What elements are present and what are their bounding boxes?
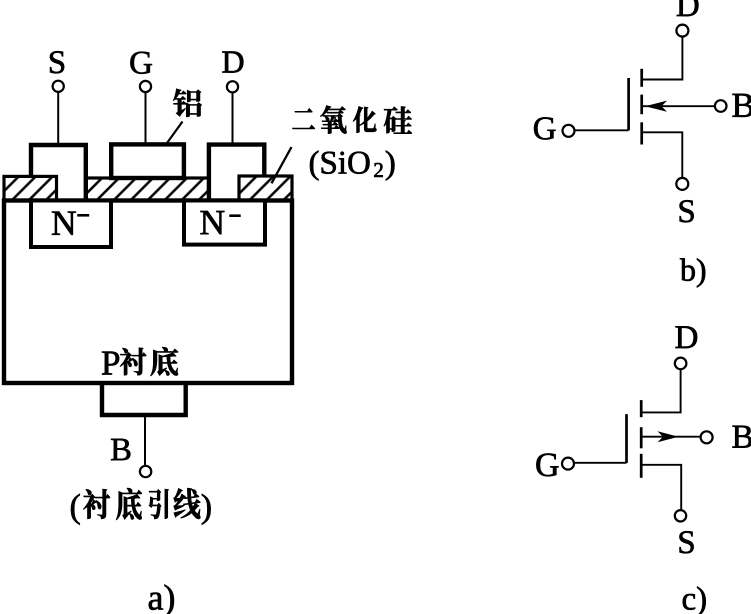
symbol b: channel dash drain xyxy=(640,69,643,87)
symbol b: channel dash source xyxy=(640,122,643,144)
label N- (source region) xyxy=(52,212,89,235)
label 二氧化硅 xyxy=(293,106,412,134)
symbol b: terminal S circle xyxy=(676,178,688,190)
symbol c: terminal B label xyxy=(733,426,751,448)
symbol c: channel dash body xyxy=(640,427,643,448)
symbol b: channel dash body xyxy=(640,95,643,115)
terminal S circle xyxy=(53,81,64,92)
symbol b: wire drain lead xyxy=(643,37,682,80)
label P衬底 xyxy=(102,347,178,376)
symbol c: wire source lead xyxy=(642,465,681,510)
terminal D label xyxy=(222,52,243,73)
terminal S label xyxy=(50,51,64,73)
label (SiO2) xyxy=(310,151,394,181)
symbol c: wire drain lead xyxy=(642,369,680,412)
wire D lead xyxy=(232,93,234,144)
terminal D circle xyxy=(227,81,238,92)
label b) xyxy=(680,258,705,287)
symbol c: wire gate lead xyxy=(574,462,627,464)
symbol b: terminal B circle xyxy=(715,100,727,112)
symbol c: channel dash drain xyxy=(640,400,643,417)
terminal G circle xyxy=(140,81,151,92)
oxide layer right (hatched SiO2) xyxy=(239,176,292,201)
oxide layer left (hatched SiO2) xyxy=(4,176,57,200)
P substrate body xyxy=(4,201,292,384)
symbol c: terminal D label xyxy=(676,326,698,348)
terminal G label xyxy=(130,52,152,74)
symbol b: terminal S label xyxy=(680,200,694,222)
gate metal electrode xyxy=(111,144,184,178)
symbol b: wire source lead xyxy=(643,132,682,178)
symbol c: terminal G label xyxy=(536,454,558,477)
wire B lead xyxy=(144,415,146,465)
symbol c: gate bar xyxy=(625,414,628,463)
symbol b: wire bulk lead xyxy=(643,105,715,107)
symbol c: channel dash source xyxy=(640,454,643,478)
symbol c: terminal D circle xyxy=(675,358,687,370)
source metal electrode xyxy=(31,145,86,200)
terminal B circle xyxy=(140,466,151,477)
symbol c: bulk arrow (pointing out) xyxy=(658,431,679,442)
symbol c: terminal G circle xyxy=(562,458,574,470)
label 铝 (aluminum) xyxy=(173,89,201,117)
label (衬底引线) xyxy=(71,488,211,525)
substrate tab contact xyxy=(102,383,186,415)
oxide layer gate (hatched SiO2) xyxy=(86,178,209,201)
wire S lead xyxy=(57,92,59,144)
symbol c: wire bulk lead xyxy=(642,436,701,438)
symbol b: bulk arrow (pointing in) xyxy=(645,101,667,112)
drain metal electrode xyxy=(209,145,264,200)
N- source region xyxy=(31,201,111,248)
symbol c: terminal B circle xyxy=(701,431,713,443)
wire G lead xyxy=(145,92,147,144)
terminal B label xyxy=(111,439,130,460)
symbol c: terminal S circle xyxy=(675,510,686,521)
symbol b: terminal G circle xyxy=(563,125,575,137)
symbol c: terminal S label xyxy=(680,531,694,553)
symbol b: terminal B label xyxy=(733,94,751,117)
label N- (drain region) xyxy=(201,211,241,234)
symbol b: terminal G label xyxy=(534,117,555,139)
symbol b: gate bar xyxy=(627,78,630,130)
wire leader from 铝 to gate metal xyxy=(156,122,183,160)
wire leader from SiO2 label to oxide xyxy=(272,147,292,183)
N- drain region xyxy=(184,201,265,245)
symbol b: wire gate lead xyxy=(575,129,629,131)
symbol b: terminal D label xyxy=(677,0,699,16)
label c) xyxy=(683,587,706,614)
label a) xyxy=(149,585,174,614)
symbol b: terminal D circle xyxy=(676,25,688,37)
